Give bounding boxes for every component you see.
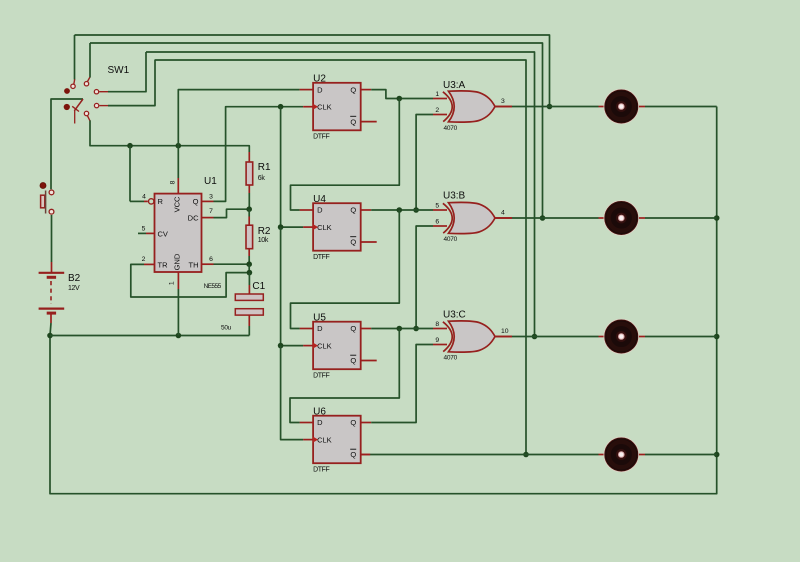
svg-text:50u: 50u bbox=[221, 325, 232, 332]
svg-text:DTFF: DTFF bbox=[313, 466, 329, 473]
svg-text:D: D bbox=[317, 324, 323, 333]
svg-text:6: 6 bbox=[209, 256, 213, 263]
svg-text:6k: 6k bbox=[258, 175, 266, 182]
svg-text:4: 4 bbox=[142, 194, 146, 201]
svg-text:Q: Q bbox=[350, 117, 356, 126]
svg-text:C1: C1 bbox=[252, 281, 265, 292]
svg-text:CLK: CLK bbox=[317, 223, 332, 232]
svg-text:7: 7 bbox=[209, 208, 213, 215]
svg-text:4070: 4070 bbox=[444, 236, 458, 243]
svg-text:TH: TH bbox=[189, 260, 199, 269]
svg-text:3: 3 bbox=[501, 98, 505, 105]
svg-text:5: 5 bbox=[435, 203, 439, 210]
svg-text:Q: Q bbox=[350, 418, 356, 427]
svg-text:SW1: SW1 bbox=[108, 65, 130, 76]
svg-text:4070: 4070 bbox=[444, 354, 458, 361]
svg-text:U5: U5 bbox=[313, 313, 326, 324]
svg-text:DTFF: DTFF bbox=[313, 372, 329, 379]
svg-text:DTFF: DTFF bbox=[313, 254, 329, 261]
svg-text:8: 8 bbox=[170, 180, 177, 184]
svg-text:Q: Q bbox=[350, 450, 356, 459]
svg-text:D: D bbox=[317, 418, 323, 427]
svg-text:DTFF: DTFF bbox=[313, 134, 329, 141]
svg-text:2: 2 bbox=[142, 256, 146, 263]
svg-text:1: 1 bbox=[169, 281, 176, 285]
svg-text:D: D bbox=[317, 206, 323, 215]
svg-text:6: 6 bbox=[435, 219, 439, 226]
svg-text:10: 10 bbox=[501, 328, 509, 335]
svg-text:8: 8 bbox=[435, 321, 439, 328]
svg-text:CLK: CLK bbox=[317, 102, 332, 111]
svg-text:3: 3 bbox=[209, 194, 213, 201]
svg-text:2: 2 bbox=[435, 107, 439, 114]
svg-text:R: R bbox=[158, 197, 164, 206]
svg-text:VCC: VCC bbox=[172, 196, 181, 212]
svg-text:D: D bbox=[317, 85, 323, 94]
svg-text:12V: 12V bbox=[68, 285, 80, 292]
svg-text:1: 1 bbox=[435, 91, 439, 98]
svg-text:R1: R1 bbox=[258, 162, 271, 173]
svg-text:CV: CV bbox=[158, 229, 168, 238]
svg-text:GND: GND bbox=[172, 253, 181, 270]
svg-text:10k: 10k bbox=[258, 237, 269, 244]
svg-text:4: 4 bbox=[501, 210, 505, 217]
svg-text:Q: Q bbox=[350, 356, 356, 365]
svg-text:U4: U4 bbox=[313, 194, 326, 205]
svg-text:CLK: CLK bbox=[317, 341, 332, 350]
svg-text:B2: B2 bbox=[68, 273, 81, 284]
svg-text:Q: Q bbox=[350, 85, 356, 94]
svg-text:U3:B: U3:B bbox=[443, 191, 466, 202]
svg-text:Q: Q bbox=[350, 238, 356, 247]
svg-text:NE555: NE555 bbox=[204, 283, 222, 290]
svg-text:DC: DC bbox=[188, 213, 199, 222]
svg-text:U3:C: U3:C bbox=[443, 310, 466, 321]
svg-text:5: 5 bbox=[142, 225, 146, 232]
svg-text:Q: Q bbox=[193, 197, 199, 206]
svg-text:Q: Q bbox=[350, 324, 356, 333]
svg-text:TR: TR bbox=[158, 260, 169, 269]
svg-text:CLK: CLK bbox=[317, 435, 332, 444]
svg-text:U6: U6 bbox=[313, 407, 326, 418]
svg-text:R2: R2 bbox=[258, 226, 271, 237]
svg-text:4070: 4070 bbox=[444, 125, 458, 132]
svg-text:U3:A: U3:A bbox=[443, 80, 466, 91]
svg-text:U1: U1 bbox=[204, 176, 217, 187]
svg-text:U2: U2 bbox=[313, 74, 326, 85]
svg-text:9: 9 bbox=[435, 337, 439, 344]
svg-text:Q: Q bbox=[350, 206, 356, 215]
